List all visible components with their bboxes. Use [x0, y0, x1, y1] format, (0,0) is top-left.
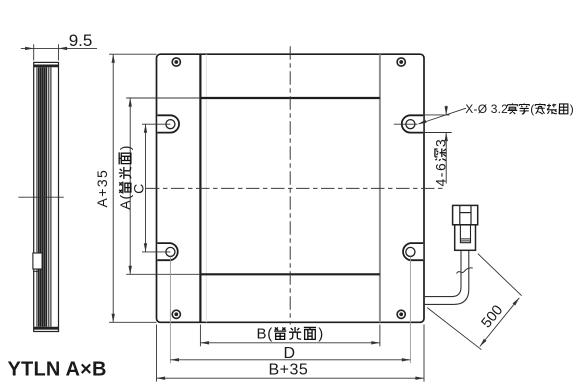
lower hole ref line — [142, 251, 170, 253]
corner hole top-right — [397, 58, 405, 66]
ear upper-right — [402, 115, 423, 132]
side view notch (connector block) — [33, 253, 42, 269]
horizontal centerline — [146, 187, 444, 189]
svg-text:): ) — [318, 325, 323, 342]
vertical centerline — [289, 46, 291, 324]
side view center mark — [18, 196, 63, 198]
ear lower-right — [403, 243, 423, 260]
svg-text:): ) — [117, 146, 133, 151]
side view body — [34, 62, 59, 331]
D extension lines (gray, from ear holes) — [170, 257, 410, 364]
window left edge — [199, 54, 201, 322]
svg-text:D: D — [284, 345, 296, 362]
svg-text:(: ( — [530, 102, 534, 116]
svg-text:B(: B( — [257, 325, 274, 342]
cable tie squiggle — [457, 268, 473, 274]
cable — [424, 250, 469, 304]
svg-text:A(: A( — [117, 194, 133, 210]
dim D — [170, 359, 410, 361]
ear upper-left — [157, 115, 179, 132]
annotation text X-diam 3.2 — [465, 102, 574, 116]
bottom edge ext — [109, 321, 157, 323]
upper hole ref line — [142, 123, 170, 125]
corner hole bottom-left — [172, 310, 180, 318]
faint inner line left — [205, 54, 207, 322]
dim C — [145, 124, 147, 252]
dim 500 — [427, 254, 521, 350]
dim B (window) — [200, 342, 380, 344]
svg-text:4-6: 4-6 — [432, 162, 448, 187]
left extension lines — [109, 54, 200, 322]
9.5 dimension — [21, 44, 97, 60]
svg-text:3: 3 — [432, 139, 448, 147]
dim A+35 — [112, 54, 114, 322]
ear lower-left — [157, 243, 177, 260]
connector plug — [453, 205, 478, 250]
window bottom ext — [126, 273, 200, 275]
corner hole bottom-right — [397, 310, 405, 318]
corner hole top-left — [172, 58, 180, 66]
main body outline — [157, 54, 425, 322]
svg-text:YTLN A×B: YTLN A×B — [8, 359, 107, 381]
dim 4-6 deep 3 — [445, 106, 447, 115]
window top ext — [126, 97, 200, 99]
svg-text:A+35: A+35 — [94, 169, 110, 208]
top edge ext — [109, 53, 157, 55]
svg-text:C: C — [131, 184, 147, 194]
window right edge (gray) — [379, 54, 381, 322]
X-diam leader — [419, 108, 466, 124]
bottom extension lines — [157, 325, 425, 382]
upper-right hole centerline mark — [394, 123, 418, 125]
svg-text:9.5: 9.5 — [69, 31, 93, 50]
svg-text:): ) — [570, 102, 574, 116]
right ear edge extension lines — [424, 114, 450, 116]
dim B+35 — [157, 377, 425, 379]
window top edge — [200, 97, 380, 99]
dim A(fa-guang-mian) — [129, 98, 131, 274]
svg-text:B+35: B+35 — [269, 362, 309, 379]
svg-text:X-Ø 3.2: X-Ø 3.2 — [465, 102, 508, 116]
window bottom edge — [200, 273, 380, 275]
